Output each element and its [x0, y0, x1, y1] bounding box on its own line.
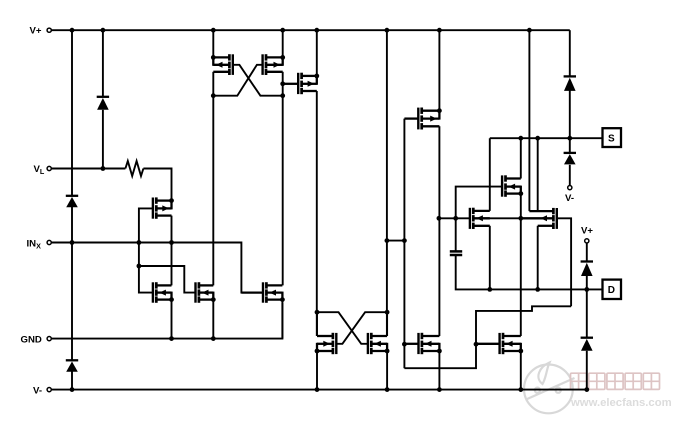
diode D2 INX to V+: [66, 195, 78, 197]
svg-text:GND: GND: [21, 334, 42, 345]
diode D4 (V+ rail to S): [564, 75, 576, 77]
terminal INX: [47, 240, 51, 244]
svg-text:V-: V-: [33, 385, 42, 396]
svg-text:V+: V+: [30, 26, 42, 37]
transistor Q3 (PMOS right of cross pair): [300, 73, 303, 79]
terminal V- bottom-left: [47, 388, 51, 392]
transistor Q2 (PMOS, cross pair right): [265, 54, 268, 60]
diode D6 (D to V+ terminal): [581, 260, 593, 262]
transistor Q12 (NMOS, bottom cross pair left): [332, 333, 335, 339]
transistor Q13 (NMOS, bottom cross pair right): [370, 333, 373, 339]
wire V- bottom rail: [51, 389, 586, 391]
wire V+ terminal to D6: [586, 243, 588, 262]
wire node C branch y=266 to Q10 gate: [139, 266, 196, 293]
svg-text:D: D: [608, 285, 615, 296]
wire Q5 gate down to INX: [139, 208, 153, 242]
transistor Q5 (PMOS, VL follower): [155, 197, 158, 203]
junction dots NMOS row sources: [169, 297, 174, 302]
wire Q12 drain chain x=317: [316, 312, 318, 336]
wire Q8 drain branch up to rail x=529.4: [528, 30, 530, 211]
wire Q12 source to V- rail: [316, 351, 318, 390]
terminal V+ right (above D): [585, 239, 589, 243]
svg-text:www.elecfans.com: www.elecfans.com: [570, 397, 672, 409]
wire Q3 source down to X2 node: [316, 91, 318, 336]
wire GND line: [51, 303, 282, 339]
wire Q13 source to V- rail: [386, 351, 388, 390]
wire Q6 source chain down x=520.8: [520, 194, 522, 336]
junction dots switch cluster: [518, 191, 523, 196]
transistor Q6 (NMOS, S-side): [504, 175, 507, 181]
wire cap bottom to D line: [456, 255, 490, 289]
wire S line branch down to Q8 drain: [537, 138, 539, 211]
transistor Q15 (NMOS bias, right): [502, 333, 505, 339]
wire resistor to Q5 drain: [143, 169, 171, 201]
wire Q9 drain up to INX: [171, 243, 173, 286]
transistor Q14 (NMOS bias, under Q4): [421, 333, 424, 339]
diode D5 (V- to S): [564, 152, 576, 154]
junction dots D line: [487, 287, 492, 292]
capacitor C1: [450, 250, 462, 253]
transistor Q4 (PMOS above bias chain): [420, 108, 423, 114]
wire INX clamp branch x=72: [71, 30, 73, 196]
wire VL line: [51, 168, 125, 170]
junction dots misc top: [211, 55, 216, 60]
wire Q14 source to V- rail: [438, 351, 440, 390]
wire Q6 gate to cap node: [456, 187, 501, 219]
wire node B down to Q11 drain: [282, 96, 284, 286]
diode D7 (V- to D): [581, 337, 593, 339]
wire Q3 drain to rail: [316, 30, 318, 76]
watermark logo circle: [524, 363, 575, 414]
wire Q1 gate to node B (diagonal): [233, 65, 283, 96]
wire gate chain bottom jog: [404, 306, 571, 368]
terminal VL: [47, 166, 51, 170]
wire D line: [490, 288, 603, 290]
wire gate row to Q7 gate: [439, 217, 470, 219]
transistor Q9 (NMOS, left): [155, 282, 158, 288]
wire S diode branch: D4 down to S line: [569, 90, 571, 138]
transistor Q8 (PMOS analog switch S-D): [552, 208, 555, 214]
wire Q10 source down to GND: [212, 300, 214, 339]
diode D1 VL clamp: [97, 96, 109, 98]
wire Q5 source down to INX: [171, 216, 173, 243]
terminal V- right (below S): [568, 186, 572, 190]
wire Q4 gate line down x=404.4: [403, 119, 405, 369]
D output box: [603, 280, 622, 299]
wire Q7 source down to D line: [489, 226, 491, 290]
wire S line left corner down to Q7 drain: [489, 138, 491, 211]
wire Q8 gate down and to bias chain: [557, 218, 571, 306]
junction dots INX: [70, 240, 75, 245]
terminal V+ top-left: [47, 28, 51, 32]
wire Q13 gate to X2 left node (diagonal): [317, 312, 368, 344]
wire Q1 source down to node A: [212, 72, 214, 96]
junction dots bias gates: [402, 342, 407, 347]
S output box: [603, 128, 622, 147]
wire Q2 source down to node B: [282, 72, 284, 96]
wire Q4 drain to rail: [438, 30, 440, 111]
transistor Q11 (NMOS, right): [265, 282, 268, 288]
wire Q2 drain to rail: [282, 30, 284, 57]
junction dot VL: [101, 166, 106, 171]
wire V+ rail corner down to S diode chain: [569, 30, 571, 76]
wire Q13 drain chain x=387.1: [386, 312, 388, 336]
transistor Q10 (NMOS, middle): [198, 282, 201, 288]
wire Q6 drain up to S line: [520, 138, 522, 178]
resistor R1: [125, 161, 143, 176]
wire Q11 source down to GND end: [281, 300, 283, 339]
wire Q9 source down to GND: [171, 300, 173, 339]
svg-text:S: S: [608, 133, 615, 144]
wire cap top to gate node: [455, 218, 457, 251]
junction dots bottom cross pair: [315, 310, 320, 315]
wire Q4 source down to Q14 drain: [438, 126, 440, 336]
junction dots GND: [169, 336, 174, 341]
junction dots S line: [518, 136, 523, 141]
wire Q1 drain to rail: [212, 30, 214, 57]
svg-text:V-: V-: [565, 193, 574, 204]
svg-text:V+: V+: [581, 226, 593, 237]
terminal GND: [47, 337, 51, 341]
wire D line down to D7: [586, 289, 588, 337]
transistor Q7 (NMOS analog switch S-D): [472, 208, 475, 214]
wire V+ top rail: [51, 29, 569, 31]
wire Q12 gate to X2 right node (diagonal): [336, 312, 387, 344]
wire Q8 source down to D line: [537, 226, 539, 290]
wire Q2 gate to node A (diagonal): [213, 65, 262, 96]
junction dots V+ rail: [70, 28, 75, 33]
wire S line to D5 and V- terminal: [569, 138, 571, 153]
wire V+/VL clamp branch x=102.9: [102, 30, 104, 97]
wire Q15 source to V- rail: [520, 351, 522, 390]
diode D3 V- to INX: [66, 359, 78, 361]
wire Q7 body lead to x520.8: [480, 217, 521, 219]
wire node A down to Q10 drain: [212, 96, 214, 286]
watermark text 电子发烧友 (pseudo glyphs): [571, 373, 660, 389]
wire INX branch down x=138.9 to Q9 gate: [139, 243, 153, 293]
junction dots V- rail: [70, 387, 75, 392]
wire S line: [490, 137, 603, 139]
transistor Q1 (PMOS, cross pair left): [228, 54, 231, 60]
wire gate-line bridge y=240.6: [387, 240, 405, 242]
wire V+ rail branch x=386.9 down to X2: [386, 30, 388, 336]
wire INX line: [51, 243, 263, 293]
